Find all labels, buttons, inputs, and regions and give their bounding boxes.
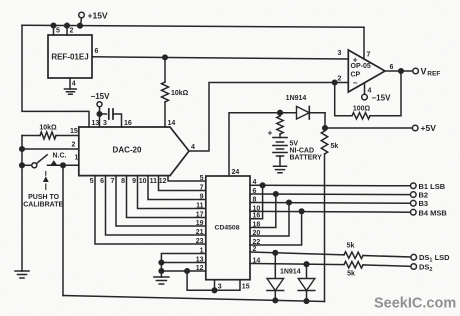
wire CD4508 pin 3	[214, 280, 216, 291]
svg-text:1: 1	[75, 155, 79, 162]
svg-text:10: 10	[253, 205, 261, 212]
svg-text:5k: 5k	[347, 271, 355, 278]
svg-text:4: 4	[191, 144, 195, 151]
node rail junction pin5	[51, 23, 56, 28]
battery BT1 5V NI-CAD	[273, 138, 287, 157]
svg-text:−15V: −15V	[91, 92, 111, 101]
wire 5k down to bottom rail	[324, 154, 326, 302]
wire CD4508 pin 16 tie	[250, 185, 263, 218]
wire left ground bus	[21, 136, 23, 272]
wire CD4508 pin 14 to DS2	[250, 264, 344, 265]
svg-text:1N914: 1N914	[286, 95, 307, 102]
node D2 to rail	[273, 298, 278, 303]
wire REF pin6 output to op-amp pin3	[92, 57, 348, 59]
node rail junction pin2	[65, 23, 70, 28]
svg-text:13: 13	[196, 257, 204, 264]
svg-text:7: 7	[200, 185, 204, 192]
terminal DS1 LSD	[411, 254, 417, 260]
scan noise overlay	[0, 0, 1, 1]
svg-text:CP: CP	[351, 72, 361, 79]
wire bottom calibrate rail	[63, 296, 325, 302]
svg-text:100Ω: 100Ω	[353, 106, 371, 113]
svg-text:8: 8	[121, 178, 125, 185]
resistor R4 battery series	[279, 113, 281, 116]
resistor R5 5k pull-up vertical	[324, 128, 326, 131]
ground battery	[274, 166, 287, 173]
diode D1 1N914 battery isolation	[297, 106, 310, 119]
wire DAC pin 5 to CD4508 pin 23	[95, 176, 206, 244]
wire left V+ drop to DAC pin 13	[22, 25, 89, 127]
node pin12 junction	[159, 269, 164, 274]
wire CD4508 pin 4 output B1	[250, 184, 411, 187]
node +5V junction	[323, 126, 328, 131]
wire diode to +5V node	[309, 113, 325, 128]
svg-text:11: 11	[196, 203, 204, 210]
svg-text:REF-01EJ: REF-01EJ	[51, 53, 88, 62]
svg-text:−: −	[353, 79, 358, 88]
wire DAC output pin4 to op-amp inverting	[189, 83, 348, 152]
wire CD4508 pin 2 to DS1	[250, 252, 344, 255]
wire pin12 to pin3/pin15	[187, 271, 240, 290]
node B3 junction	[287, 200, 292, 205]
svg-text:22: 22	[253, 239, 261, 246]
svg-text:16: 16	[253, 213, 261, 220]
resistor R2 10k vertical (VREF+ to DAC pin14)	[164, 57, 166, 82]
terminal B4 MSB	[411, 209, 417, 215]
svg-text:1: 1	[200, 248, 204, 255]
svg-text:7: 7	[367, 52, 371, 59]
wire +15V top rail	[22, 25, 364, 27]
node pin13 junction	[159, 260, 164, 265]
svg-text:6: 6	[253, 188, 257, 195]
wire CD4508 pin 22 tie	[250, 211, 302, 245]
svg-text:21: 21	[196, 229, 204, 236]
svg-text:2: 2	[253, 246, 257, 253]
wire CD4508 pin 18 tie	[250, 194, 276, 228]
IC U1 REF-01EJ	[48, 35, 92, 78]
terminal B1 LSB	[411, 183, 417, 189]
node DAC pin2 junction	[20, 147, 25, 152]
svg-text:12: 12	[196, 265, 204, 272]
svg-text:B4 MSB: B4 MSB	[419, 208, 448, 217]
svg-text:15: 15	[70, 128, 78, 135]
svg-text:5k: 5k	[331, 143, 339, 150]
svg-text:4: 4	[253, 179, 257, 186]
svg-text:13: 13	[92, 120, 100, 127]
wire CD4508 pin 12	[161, 270, 205, 272]
wire op-amp pin4 to -15V	[364, 83, 366, 94]
terminal VREF	[413, 68, 419, 74]
terminal B3	[411, 200, 417, 206]
terminal B2	[411, 192, 417, 198]
svg-text:6: 6	[100, 178, 104, 185]
svg-text:10kΩ: 10kΩ	[39, 125, 57, 132]
wire CD4508 pin 6 output B2	[250, 193, 411, 196]
svg-text:6: 6	[390, 64, 394, 71]
IC U2 DAC-20 body	[79, 127, 189, 176]
svg-text:10: 10	[139, 178, 147, 185]
switch S1 push-to-calibrate N.C.	[22, 164, 32, 166]
wire to +5V terminal	[325, 127, 413, 129]
svg-text:3: 3	[218, 284, 222, 291]
terminal +15V	[81, 18, 82, 26]
svg-text:+15V: +15V	[88, 11, 108, 21]
resistor R3 100ohm feedback	[352, 113, 370, 119]
svg-text:19: 19	[196, 220, 204, 227]
node rail junction +15V stub	[78, 23, 83, 28]
wire DAC pin 7 to CD4508 pin 19	[116, 176, 206, 226]
node D3 to rail	[304, 299, 309, 304]
svg-text:14: 14	[253, 258, 261, 265]
svg-text:5: 5	[200, 175, 204, 182]
capacitor C1 (pin3 to pin16)	[100, 113, 107, 115]
node DS1/diode junction	[273, 251, 278, 256]
svg-text:5k: 5k	[347, 243, 355, 250]
terminal -15V (DAC)	[97, 102, 102, 107]
svg-text:CALIBRATE: CALIBRATE	[23, 202, 63, 209]
wire DAC pin3	[99, 114, 101, 127]
svg-text:6: 6	[95, 48, 99, 55]
svg-text:4: 4	[72, 81, 76, 88]
node CD4508 pin3 junction	[212, 288, 217, 293]
svg-text:10kΩ: 10kΩ	[171, 90, 189, 97]
node DAC pin3 junction	[97, 112, 102, 117]
svg-text:BATTERY: BATTERY	[290, 155, 323, 162]
svg-text:12: 12	[159, 178, 167, 185]
ground REF pin4	[65, 89, 77, 94]
node output/feedback junction	[399, 69, 404, 74]
wire feedback loop	[370, 71, 401, 116]
svg-text:5: 5	[56, 28, 60, 35]
wire DAC pin 12 to CD4508 pin 5	[168, 176, 206, 181]
svg-text:REF: REF	[427, 71, 440, 78]
terminal DS2	[411, 264, 417, 270]
node battery top junction	[278, 110, 283, 115]
svg-text:SeekIC.com: SeekIC.com	[374, 296, 456, 312]
svg-text:24: 24	[232, 169, 240, 176]
svg-text:11: 11	[150, 178, 158, 185]
node B4 junction	[299, 209, 304, 214]
wire op-amp pin7 from +15V rail	[363, 27, 365, 59]
wire CD4508 pin 8 output B3	[250, 202, 411, 205]
svg-text:NI-CAD: NI-CAD	[290, 148, 315, 155]
node B2 junction	[274, 192, 279, 197]
svg-text:−15V: −15V	[372, 94, 392, 103]
svg-text:B1 LSB: B1 LSB	[419, 182, 446, 191]
resistor R6 5k DS1	[344, 252, 363, 259]
svg-text:2: 2	[72, 142, 76, 149]
svg-text:N.C.: N.C.	[53, 153, 67, 160]
svg-text:1N914: 1N914	[280, 269, 301, 276]
wire DAC pin2	[22, 148, 79, 150]
push actuator dashed arrow	[45, 172, 47, 176]
node op-amp pin2 / feedback junction	[332, 80, 337, 85]
resistor R7 5k DS2	[344, 261, 363, 268]
wire CD4508 pin 20 tie	[250, 203, 289, 237]
svg-text:B3: B3	[419, 199, 429, 208]
svg-text:PUSH TO: PUSH TO	[28, 194, 60, 201]
svg-text:2: 2	[70, 28, 74, 35]
wire DAC pin 6 to CD4508 pin 21	[106, 176, 206, 235]
svg-text:DS2: DS2	[419, 263, 432, 274]
svg-text:23: 23	[196, 238, 204, 245]
wire REF pin4 to ground	[69, 78, 71, 89]
resistor R1 10k horizontal (VREF- pin15)	[22, 135, 40, 137]
op-amp U3 OP-05CP	[348, 50, 385, 92]
svg-text:5V: 5V	[290, 141, 299, 148]
switch arrow on wire	[51, 160, 57, 165]
node switch left junction	[20, 163, 25, 168]
diode D3 1N914	[306, 264, 308, 278]
svg-text:3: 3	[103, 120, 107, 127]
IC U4 CD4508 body	[206, 176, 250, 280]
svg-text:+5V: +5V	[421, 123, 437, 133]
wire REF pin5	[53, 25, 55, 35]
svg-text:14: 14	[168, 120, 176, 127]
node B1 junction	[260, 183, 265, 188]
svg-text:9: 9	[132, 178, 136, 185]
svg-text:8: 8	[253, 197, 257, 204]
wire DAC pin 11 to CD4508 pin 7	[159, 176, 206, 191]
svg-text:18: 18	[253, 222, 261, 229]
svg-text:9: 9	[200, 194, 204, 201]
svg-text:+: +	[353, 56, 358, 65]
wire DAC pin 8 to CD4508 pin 17	[127, 176, 206, 218]
svg-text:V: V	[421, 67, 427, 77]
node REF output / 10k junction	[163, 55, 168, 60]
node DS2/diode junction	[304, 262, 309, 267]
svg-text:16: 16	[124, 120, 132, 127]
wire CD4508 pin 1 strobe	[161, 254, 205, 278]
svg-text:20: 20	[253, 230, 261, 237]
wire op-amp output	[385, 70, 413, 72]
svg-text:2: 2	[338, 76, 342, 83]
svg-text:17: 17	[196, 212, 204, 219]
node switch/bus junction	[61, 163, 66, 168]
svg-text:3: 3	[338, 50, 342, 57]
wire DAC pin 9 to CD4508 pin 11	[138, 176, 206, 209]
ground left bus	[15, 271, 29, 278]
svg-text:7: 7	[111, 178, 115, 185]
wire REF pin2	[66, 25, 68, 35]
svg-text:CD4508: CD4508	[215, 225, 240, 232]
node pin12 branch junction	[185, 269, 190, 274]
wire DAC pin 10 to CD4508 pin 9	[148, 176, 206, 200]
svg-text:15: 15	[242, 284, 250, 291]
wire CD4508 pin 10 output B4	[250, 210, 411, 213]
diode D2 1N914	[274, 253, 276, 279]
wire CD4508 pin 13	[161, 262, 205, 264]
terminal +5V	[412, 125, 418, 131]
svg-text:DAC-20: DAC-20	[113, 146, 142, 155]
ground CD4508 strobe pins	[154, 277, 169, 284]
wire battery rail to CD4508 pin24	[229, 113, 325, 176]
svg-text:5: 5	[90, 178, 94, 185]
svg-text:+: +	[268, 129, 273, 138]
wire calibrate bus down	[62, 165, 64, 295]
